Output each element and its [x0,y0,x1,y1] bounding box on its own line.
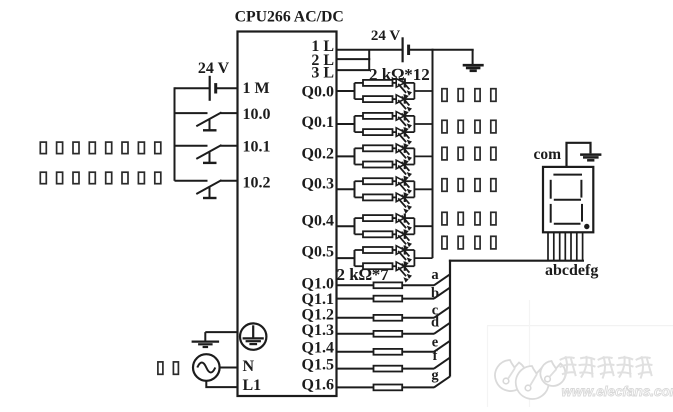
watermark glyph row left 1 [40,142,161,154]
wire Q0.4 terminal stub [337,225,355,227]
switch S3 (input 10.2) [175,180,238,198]
resistor R1 2k [355,80,397,86]
wire Q0.4 tap to bus [414,225,432,227]
svg-text:Q0.0: Q0.0 [302,83,334,100]
wire segment bus horizontal [449,260,584,262]
wire bus entry c [434,307,450,318]
svg-text:www.elecfans.com: www.elecfans.com [562,384,673,399]
segment e [550,204,552,223]
protective earth symbol PE circle [240,323,266,349]
wire L1 from source [206,381,237,387]
svg-text:f: f [433,348,438,364]
watermark elecfans logo circles [495,360,565,399]
watermark glyph pair bottom left [158,362,179,374]
battery B1 24V left [209,76,211,101]
watermark glyph row left 2 [40,172,161,184]
segment c [581,204,583,222]
svg-text:3 L: 3 L [311,64,334,81]
segment a [553,174,582,176]
svg-text:Q0.3: Q0.3 [302,176,334,193]
wire Q0.5 tap to bus [414,257,432,259]
wire PE ground stub [204,332,206,341]
wire 1M row right [216,87,238,89]
LED D10 [396,230,414,251]
svg-text:10.2: 10.2 [243,175,271,192]
resistor R6 2k [355,162,397,168]
svg-text:Q0.2: Q0.2 [302,146,334,163]
wire Q0.5 branch bracket [354,250,356,266]
svg-text:N: N [243,358,255,375]
wire bus entry e [434,341,450,352]
resistor R9 2k [355,215,397,221]
wire left vertical bus [174,87,176,181]
svg-text:24 V: 24 V [371,28,400,44]
LED D7 [396,177,414,198]
LED D5 [396,144,414,165]
svg-text:g: g [431,368,439,384]
7-segment display DS1 [543,167,593,232]
resistor R5 2k [355,145,397,151]
wire Q0.1 terminal stub [337,123,355,125]
wire segment bus vertical [449,260,451,377]
LED D6 [396,160,414,181]
LED D11 [396,245,414,266]
svg-text:CPU266 AC/DC: CPU266 AC/DC [235,8,344,25]
resistor R11 2k [355,247,397,253]
watermark glyph block right [442,89,496,249]
display pins a-g [548,232,583,260]
svg-text:a: a [431,267,439,283]
ground earth top right [463,65,484,71]
svg-text:Q1.6: Q1.6 [302,377,334,394]
wire Q0.0 branch bracket [354,83,356,99]
wire Q0.3 branch bracket [354,181,356,197]
svg-text:Q1.5: Q1.5 [302,356,334,373]
wire bus entry g [434,376,450,387]
svg-text:b: b [431,286,439,302]
battery B2 24V right [402,37,404,62]
wire Q0.1 tap to bus [414,123,432,125]
wire Q0.3 terminal stub [337,188,355,190]
wire Q0.3 cathode join [413,181,415,197]
watermark chinese brush text [558,355,654,379]
wire bus entry b [434,288,450,299]
wire bus entry a [434,274,450,285]
resistor R18 2k (segment f) [337,366,435,372]
wire 3L row [337,69,371,71]
resistor R10 2k [355,231,397,237]
resistor R2 2k [355,96,397,102]
resistor R4 2k [355,129,397,135]
svg-text:d: d [431,315,439,331]
svg-text:Q0.4: Q0.4 [302,213,334,230]
wire bus entry f [434,358,450,369]
wire Q0.5 cathode join [413,250,415,266]
LED D8 [396,193,414,214]
svg-text:Q0.1: Q0.1 [302,114,334,131]
svg-text:L1: L1 [243,377,262,394]
svg-text:10.0: 10.0 [243,106,271,123]
wire Q0.2 tap to bus [414,155,432,157]
wire Q0.4 branch bracket [354,218,356,234]
svg-text:2 kΩ*7: 2 kΩ*7 [337,265,390,284]
wire battery to ground corner [409,49,474,51]
LED D1 [396,78,414,99]
resistor R17 2k (segment e) [337,349,435,355]
resistor R7 2k [355,178,397,184]
watermark faint frame line [487,325,673,327]
resistor R19 2k (segment g) [337,385,435,391]
segment f [550,180,552,199]
ground earth com [580,155,601,161]
wire 1M row left [175,87,210,89]
wire Q0.2 branch bracket [354,148,356,164]
segment g [554,199,581,201]
segment b [580,180,582,198]
ground earth left [192,342,220,347]
decimal point [584,224,589,229]
resistor R12 2k [355,263,397,269]
LED D4 [396,128,414,149]
AC source G1 [193,354,220,381]
svg-text:abcdefg: abcdefg [545,262,598,279]
wire N row [220,367,238,369]
wire Q0.0 tap to bus [414,90,432,92]
LED D9 [396,214,414,235]
svg-text:24 V: 24 V [198,60,230,77]
wire Q0.5 terminal stub [337,257,355,259]
switch S2 (input 10.1) [175,145,238,163]
LED D3 [396,111,414,132]
LED D2 [396,95,414,116]
wire ground drop [472,50,474,65]
wire Q0.3 tap to bus [414,188,432,190]
wire jumper 1L-2L-3L [368,50,370,70]
svg-text:Q1.2: Q1.2 [302,306,334,323]
wire bus entry d [434,323,450,334]
resistor R3 2k [355,113,397,119]
svg-text:10.1: 10.1 [243,138,271,155]
resistor R16 2k (segment d) [337,331,435,337]
wire 2L row [337,58,371,60]
wire Q0.2 cathode join [413,148,415,164]
LED D12 [396,262,414,283]
wire Q0.0 terminal stub [337,90,355,92]
svg-text:1 M: 1 M [243,80,270,97]
wire Q0.0 cathode join [413,83,415,99]
svg-text:Q1.3: Q1.3 [302,322,334,339]
switch S1 (input 10.0) [175,112,238,130]
wire Q0.2 terminal stub [337,155,355,157]
svg-text:Q1.4: Q1.4 [302,340,334,357]
resistor R13 2k (segment a) [337,282,435,288]
resistor R8 2k [355,194,397,200]
wire PE row [205,331,237,333]
wire 1L row [337,49,403,51]
resistor R14 2k (segment b) [337,296,435,302]
node LED supply bus [432,49,434,258]
wire com to ground [567,143,591,167]
svg-text:Q0.5: Q0.5 [302,244,334,261]
svg-text:com: com [534,146,562,163]
wire Q0.1 branch bracket [354,116,356,132]
PLC U1 CPU266 AC/DC box [238,32,337,397]
wire Q0.1 cathode join [413,116,415,132]
segment d [554,223,581,225]
resistor R15 2k (segment c) [337,315,435,321]
wire Q0.4 cathode join [413,218,415,234]
